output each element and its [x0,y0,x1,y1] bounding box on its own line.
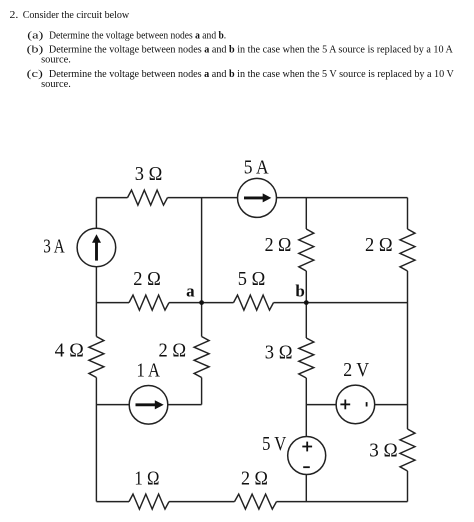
svg-text:5 A: 5 A [244,157,269,179]
svg-text:2 Ω: 2 Ω [133,268,161,290]
svg-text:source.: source. [41,79,71,90]
svg-text:Determine the voltage between: Determine the voltage between nodes a an… [49,31,226,42]
svg-text:Determine the voltage between: Determine the voltage between nodes a an… [49,69,454,80]
svg-text:4 Ω: 4 Ω [55,339,84,361]
svg-text:3 A: 3 A [43,235,65,257]
svg-text:2 V: 2 V [343,359,369,381]
svg-text:Determine the voltage between: Determine the voltage between nodes a an… [49,45,453,56]
svg-text:3 Ω: 3 Ω [369,439,398,461]
svg-text:1 Ω: 1 Ω [134,468,159,490]
svg-text:5 Ω: 5 Ω [238,268,265,290]
svg-text:b: b [295,281,304,300]
svg-text:5 V: 5 V [262,433,287,455]
svg-text:a: a [186,281,195,300]
svg-text:(a): (a) [27,31,43,42]
svg-text:2.: 2. [10,10,19,21]
svg-text:2 Ω: 2 Ω [241,468,268,490]
svg-text:Consider the circuit below: Consider the circuit below [23,10,130,21]
svg-text:3 Ω: 3 Ω [135,163,163,185]
svg-text:3 Ω: 3 Ω [265,341,293,363]
svg-text:source.: source. [41,55,71,66]
svg-text:2 Ω: 2 Ω [265,234,292,256]
svg-text:2 Ω: 2 Ω [365,234,393,256]
svg-text:2 Ω: 2 Ω [159,339,187,361]
svg-text:1 A: 1 A [137,360,161,382]
